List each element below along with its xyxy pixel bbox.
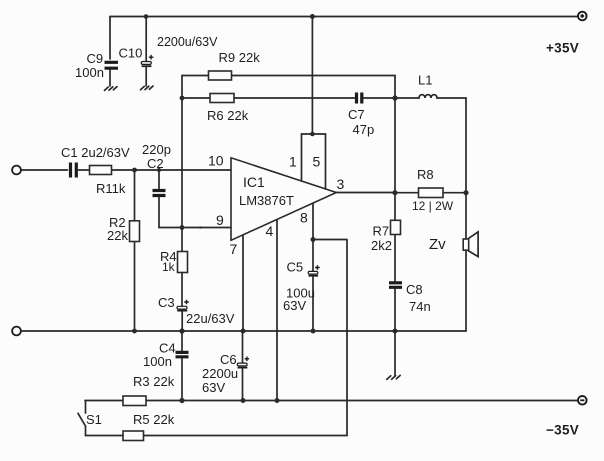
capacitor C10 (electrolytic) (141, 17, 153, 87)
svg-text:74n: 74n (409, 299, 431, 314)
svg-text:IC1: IC1 (243, 174, 265, 190)
junction C6/-35V (241, 398, 246, 403)
svg-text:C3: C3 (158, 295, 175, 310)
ground under C9 (105, 87, 118, 91)
junction C5/ground rail (311, 329, 316, 334)
junction C3/C4 node (179, 328, 184, 333)
pin 8 wire (312, 204, 314, 240)
resistor R1 (79, 166, 232, 175)
ground under C8 (387, 375, 400, 379)
op-amp IC1 (231, 158, 336, 241)
junction rail/C10 (144, 14, 149, 19)
wire L1 right drop (465, 98, 467, 193)
resistor R6 (182, 94, 355, 103)
wire feedback column (181, 98, 183, 252)
svg-text:2k2: 2k2 (371, 238, 392, 253)
svg-text:63V: 63V (202, 380, 225, 395)
svg-text:1k: 1k (162, 260, 176, 274)
svg-text:7: 7 (230, 241, 238, 257)
svg-text:47p: 47p (353, 122, 375, 137)
svg-text:C5: C5 (287, 260, 304, 275)
svg-text:S1: S1 (86, 412, 102, 427)
svg-text:2200u/63V: 2200u/63V (157, 35, 218, 49)
capacitor C2 (153, 170, 166, 228)
svg-text:1: 1 (289, 154, 297, 170)
wire R9 right drop (394, 76, 396, 99)
wire R9 left drop (181, 76, 183, 99)
input terminal (bottom) (12, 327, 21, 336)
junction output node (392, 190, 397, 195)
ground under C10 (141, 86, 154, 90)
junction feedback node (180, 225, 185, 230)
resistor R9 (182, 71, 395, 80)
svg-text:100n: 100n (143, 354, 172, 369)
wire pin 8 to mute column (313, 240, 347, 436)
svg-text:9: 9 (216, 212, 224, 228)
svg-text:R8: R8 (417, 167, 434, 182)
-35V terminal (578, 396, 587, 405)
svg-text:+35V: +35V (546, 40, 579, 55)
junction C4/-35V (179, 398, 184, 403)
svg-text:2200u: 2200u (202, 366, 238, 381)
svg-text:22k: 22k (107, 228, 128, 243)
wire output column (394, 98, 396, 193)
wire rail to pins 1/5 (311, 17, 313, 134)
pin 7 wire (242, 235, 244, 331)
capacitor C9 (105, 17, 119, 87)
junction C2 tap (157, 168, 161, 172)
svg-text:C1 2u2/63V: C1 2u2/63V (61, 145, 130, 160)
resistor R4 (178, 252, 188, 273)
svg-text:R6 22k: R6 22k (207, 108, 249, 123)
pin 4 wire (276, 220, 278, 401)
svg-text:R3 22k: R3 22k (133, 374, 175, 389)
junction node A (output column top) (392, 95, 397, 100)
wire R4 to C3 (181, 273, 183, 307)
capacitor C6 (electrolytic) (237, 331, 249, 401)
svg-text:C7: C7 (348, 107, 365, 122)
capacitor C5 (electrolytic) (308, 240, 320, 332)
ground rail wire (21, 330, 466, 332)
svg-text:C2: C2 (147, 156, 164, 171)
svg-text:100n: 100n (75, 65, 104, 80)
resistor R5 (86, 431, 348, 441)
svg-text:Zv: Zv (429, 236, 446, 253)
junction C8/ground rail (393, 329, 398, 334)
junction speaker node (463, 190, 468, 195)
junction rail to IC supply (310, 14, 315, 19)
speaker Zv (463, 193, 478, 331)
svg-text:3: 3 (337, 176, 345, 192)
svg-text:C6: C6 (220, 352, 237, 367)
capacitor C7 (357, 93, 396, 104)
junction R2 tap (132, 168, 137, 173)
svg-text:C10: C10 (119, 46, 143, 61)
input terminal (top) (12, 166, 21, 175)
junction pin7/ground rail (241, 329, 246, 334)
wire input to C1 (21, 169, 68, 171)
capacitor C3 (electrolytic) (177, 300, 189, 331)
resistor R7 (391, 193, 401, 281)
svg-text:63V: 63V (283, 298, 306, 313)
capacitor C1 (71, 163, 77, 178)
svg-text:R9 22k: R9 22k (219, 50, 261, 65)
svg-text:220p: 220p (142, 142, 171, 157)
junction R2/ground rail (132, 329, 137, 334)
wire to ground (394, 331, 396, 376)
svg-text:−35V: −35V (546, 423, 579, 438)
resistor R3 (123, 396, 146, 406)
resistor R8 (395, 188, 466, 198)
svg-text:12 | 2W: 12 | 2W (412, 199, 454, 213)
svg-text:4: 4 (266, 223, 274, 239)
wire C2 to pin 9 (159, 227, 231, 229)
svg-text:R5 22k: R5 22k (133, 412, 175, 427)
svg-text:R11k: R11k (96, 181, 126, 196)
output wire pin 3 (336, 192, 395, 194)
svg-text:10: 10 (208, 153, 224, 169)
switch S1 (78, 401, 86, 436)
svg-text:L1: L1 (418, 73, 432, 88)
+35V rail wire (110, 16, 578, 18)
capacitor C4 (176, 331, 189, 401)
svg-text:22u/63V: 22u/63V (186, 311, 235, 326)
resistor R2 (130, 170, 140, 331)
junction R6/R9 left (180, 96, 185, 101)
+35V terminal (578, 12, 587, 21)
svg-text:C8: C8 (406, 282, 423, 297)
svg-text:LM3876T: LM3876T (239, 193, 294, 208)
svg-text:C9: C9 (87, 51, 104, 66)
-35V rail wire with R3 (85, 400, 578, 402)
svg-text:8: 8 (300, 210, 308, 226)
wire tick artifact (197, 226, 202, 228)
inductor L1 (395, 95, 466, 98)
junction pin 8 node (311, 237, 316, 242)
pins 1/5 bracket (302, 132, 326, 189)
junction pin4/-35V (275, 398, 280, 403)
svg-text:5: 5 (313, 154, 321, 170)
capacitor C8 (389, 283, 402, 331)
svg-text:R7: R7 (373, 224, 390, 239)
